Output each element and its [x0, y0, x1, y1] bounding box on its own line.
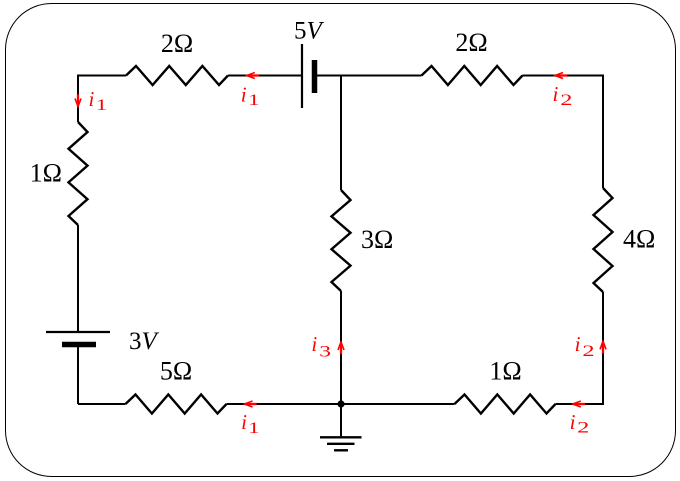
wire top right of battery: [317, 75, 422, 77]
ground stem wire: [340, 404, 342, 437]
svg-text:2Ω: 2Ω: [161, 29, 193, 58]
resistor R 3ohm middle: [332, 190, 351, 291]
ground bar 1: [320, 436, 362, 438]
node junction dot: [337, 400, 344, 407]
wire bottom-right corner horizontal: [556, 403, 604, 405]
current arrow i1 down on left wire: [75, 94, 81, 106]
svg-text:2Ω: 2Ω: [455, 28, 487, 57]
current arrow i2 left on top-right wire: [555, 73, 567, 79]
wire top middle (left of battery): [228, 75, 301, 77]
svg-text:1Ω: 1Ω: [489, 357, 521, 386]
battery V2 3V long plate: [46, 331, 110, 333]
svg-text:5V: 5V: [294, 18, 325, 45]
svg-text:1Ω: 1Ω: [30, 159, 62, 188]
current arrow i1 left on bottom-left wire: [245, 401, 257, 407]
wire left vertical top: [77, 75, 79, 123]
wire bottom-left corner horizontal: [78, 403, 126, 405]
resistor R 2ohm top-right: [422, 66, 523, 85]
current arrow i2 left on bottom-right wire: [573, 401, 585, 407]
wire top-left horizontal: [78, 75, 126, 77]
battery V2 3V short plate: [62, 342, 96, 348]
wire middle vertical bottom: [340, 291, 342, 404]
svg-text:3Ω: 3Ω: [361, 225, 393, 254]
ground bar 2: [327, 443, 355, 445]
battery V1 5V short plate: [312, 60, 318, 93]
wire right vertical bottom: [602, 292, 604, 405]
svg-text:5Ω: 5Ω: [160, 357, 192, 386]
wire right vertical top: [602, 75, 604, 189]
resistor R 5ohm bottom-left: [126, 395, 227, 414]
wire left vertical bottom: [77, 347, 79, 404]
current arrow i1 left on top wire: [247, 73, 259, 79]
wire top-right corner horizontal: [523, 75, 604, 77]
resistor R 1ohm left: [69, 122, 88, 225]
svg-text:3V: 3V: [129, 328, 160, 355]
svg-text:4Ω: 4Ω: [623, 225, 655, 254]
wire left vertical middle: [77, 225, 79, 331]
resistor R 2ohm top-left: [126, 66, 228, 85]
wire middle vertical top: [340, 76, 342, 191]
resistor R 1ohm bottom-right: [455, 395, 556, 414]
current arrow i2 up on right wire: [600, 341, 606, 353]
battery V1 5V long plate: [301, 44, 303, 108]
wire bottom middle: [227, 403, 342, 405]
ground bar 3: [334, 449, 348, 451]
resistor R 4ohm right: [594, 188, 613, 292]
wire bottom right of junction: [341, 403, 455, 405]
current arrow i3 up on middle wire: [338, 342, 344, 354]
